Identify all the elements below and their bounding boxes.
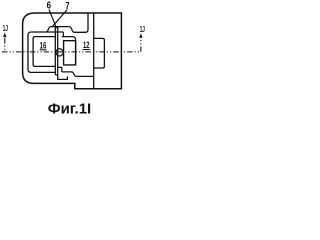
centerline dash-dot xyxy=(2,38,141,52)
svg-text:7: 7 xyxy=(65,1,70,12)
svg-text:Фиг.1I: Фиг.1I xyxy=(48,100,91,117)
svg-text:1J: 1J xyxy=(140,24,145,34)
underline 12 xyxy=(83,49,91,51)
piston rectangle xyxy=(64,41,76,65)
bottom bump outline xyxy=(58,67,68,79)
right part inner vertical xyxy=(93,13,95,88)
leader line 6 xyxy=(49,10,57,29)
svg-text:6: 6 xyxy=(47,1,52,12)
middle contour left edge xyxy=(28,32,55,72)
underline 16 xyxy=(40,49,47,51)
center circle xyxy=(56,49,63,56)
arrow left 1J xyxy=(3,32,6,37)
leader line 7 xyxy=(52,10,67,27)
bottom step ledge xyxy=(55,74,57,76)
middle contour flat top xyxy=(31,31,63,33)
svg-text:1J: 1J xyxy=(3,23,8,33)
bottom inner step xyxy=(58,67,62,72)
right pocket xyxy=(94,38,105,68)
bottom bracket to right xyxy=(62,72,94,77)
upper bracket to piston xyxy=(62,37,76,65)
middle contour right top leg xyxy=(74,13,88,32)
stem right vertical xyxy=(57,27,59,67)
inner contour xyxy=(33,37,55,67)
outer body outline xyxy=(23,13,122,89)
step under hump xyxy=(62,32,64,36)
stem left vertical xyxy=(54,27,56,75)
arrow right 1J xyxy=(139,33,142,38)
hump dome xyxy=(46,27,74,33)
